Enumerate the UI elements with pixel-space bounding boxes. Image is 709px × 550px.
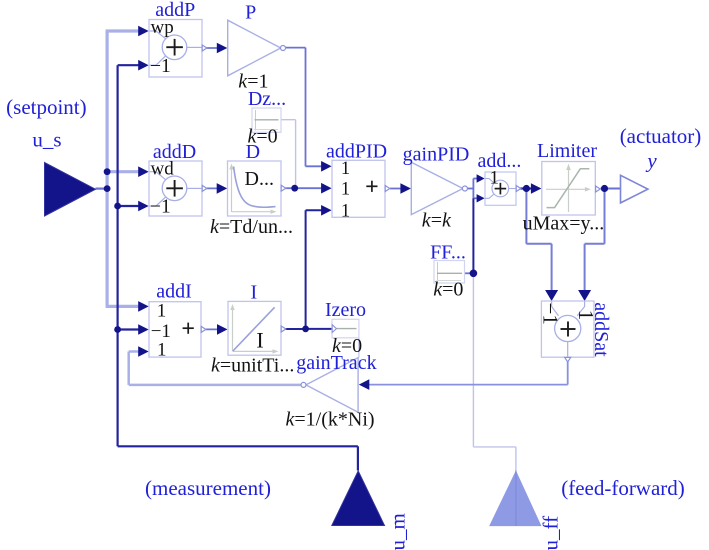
constant FFzero (434, 261, 465, 284)
arrow into addD.u2 (138, 201, 149, 212)
arrow into addPID.u2 (321, 183, 332, 194)
arrow into addI.u1 (138, 301, 149, 312)
wire u_s stub from connector to node (96, 188, 108, 190)
wire u_m to addP.u2 (118, 64, 140, 66)
arrow into addI.u2 (138, 324, 149, 335)
wire u_m horizontal from connector (118, 445, 358, 447)
wire u_ff riser (515, 447, 517, 471)
arrow into D.u (217, 183, 228, 194)
wire tap across (526, 243, 551, 245)
svg-text:D: D (246, 141, 260, 163)
node I output (302, 326, 309, 333)
svg-text:(feed-forward): (feed-forward) (561, 476, 685, 500)
wire u_m branch to addD.u2 (118, 205, 140, 207)
svg-text:uMax=y...: uMax=y... (523, 212, 605, 234)
svg-text:gainPID: gainPID (403, 143, 470, 165)
wire I node to addPID.u3 (306, 209, 325, 211)
svg-text:FF...: FF... (430, 241, 466, 263)
node u_s/addD branch (104, 168, 111, 175)
gain P (228, 20, 281, 76)
arrow into addI.u3 (138, 346, 149, 357)
wire gainPID fork vertical (472, 179, 474, 199)
limiter Limiter (542, 162, 596, 216)
arrow into addSat.u2 (578, 290, 591, 301)
adder addPID (332, 160, 385, 217)
svg-text:addSat: addSat (590, 302, 612, 357)
svg-text:(setpoint): (setpoint) (6, 95, 86, 119)
svg-text:D...: D... (245, 168, 274, 190)
svg-text:k=Td/un...: k=Td/un... (210, 216, 293, 238)
gain gainTrack (306, 358, 358, 413)
svg-text:Dz...: Dz... (248, 88, 286, 110)
svg-text:k=0: k=0 (433, 279, 463, 301)
wire output tap down to addSat.u2 (584, 244, 586, 292)
wire addI.y to I.u (201, 328, 221, 330)
gain gainPID (411, 162, 463, 214)
svg-text:(measurement): (measurement) (145, 476, 271, 500)
wire gainPID.y right (466, 188, 473, 190)
output connector y (621, 175, 648, 203)
svg-text:I: I (250, 281, 257, 303)
arrow into addSat.u1 (545, 290, 558, 301)
wire u_ff horizontal (473, 446, 516, 448)
wire Dzero.y down to D node (295, 120, 297, 189)
wire addD.y to D.u (202, 187, 221, 189)
svg-text:addD: addD (153, 141, 196, 163)
input connector u_ff (489, 470, 541, 526)
svg-text:k=1/(k*Ni): k=1/(k*Ni) (286, 409, 375, 431)
wire D.y to node (283, 187, 295, 189)
svg-text:1: 1 (157, 339, 167, 360)
wire u_m branch to addI.u2 (118, 328, 140, 330)
svg-text:add...: add... (478, 150, 522, 172)
svg-text:k=k: k=k (422, 209, 452, 231)
wire Izero edge (358, 338, 360, 358)
wire tap down to addSat.u1 (551, 244, 553, 292)
wire u_m vertical bus (116, 65, 118, 446)
arrow into addFF.u1 (477, 174, 485, 182)
wire addPID.y to gainPID.u (390, 188, 404, 190)
arrow into gainPID.u (400, 183, 411, 194)
svg-text:y: y (645, 149, 657, 173)
wire P.y down (305, 48, 307, 167)
arrow into addPID.u3 (321, 205, 332, 216)
wire Limiter input tap down (525, 189, 527, 244)
arrow into addP.u2 (138, 60, 149, 71)
wire to addFF.u2 (473, 197, 478, 199)
arrow into Limiter.u (531, 183, 542, 194)
wire I node to Izero (306, 328, 332, 330)
wire FFzero node riser (472, 198, 474, 273)
wire u_s branch to addD.u1 (107, 170, 139, 173)
node feed-forward (470, 270, 478, 278)
svg-text:u_ff: u_ff (539, 516, 563, 550)
adder addFF (485, 172, 516, 205)
wire D node to addPID.u2 (295, 187, 325, 189)
svg-text:addP: addP (155, 0, 195, 21)
wire addSat.y to gainTrack.u (369, 384, 568, 386)
adder addP (149, 20, 202, 78)
arrow into I.u (217, 324, 228, 335)
wire P.y to addPID.u1 (306, 165, 326, 167)
svg-text:addPID: addPID (326, 141, 387, 163)
svg-text:1: 1 (157, 300, 167, 321)
svg-text:1: 1 (341, 180, 350, 200)
wire I.y to node (284, 328, 306, 330)
adder addI (149, 302, 201, 357)
wire u_s to addP.u1 (106, 29, 140, 32)
svg-text:P: P (245, 2, 256, 24)
svg-text:−1: −1 (150, 56, 171, 77)
wire output tap across (585, 243, 605, 245)
input connector u_m (332, 471, 385, 526)
wire gainTrack return riser (127, 352, 130, 385)
constant Dzero (252, 108, 281, 132)
wire Limiter output tap down (604, 189, 606, 244)
svg-text:Limiter: Limiter (537, 140, 597, 162)
svg-text:1: 1 (341, 201, 350, 221)
wire Dzero.y right (281, 119, 296, 121)
svg-text:gainTrack: gainTrack (296, 352, 376, 374)
wire u_ff vertical to node (472, 273, 474, 447)
node u_s entry (104, 185, 111, 192)
wire u_s to addI.u1 (106, 305, 140, 308)
constant Izero (332, 319, 359, 338)
wire to addFF.u1 (473, 178, 478, 180)
wire addSat.y down (567, 362, 569, 385)
adder addD (149, 161, 202, 216)
arrow into addP.u1 (138, 26, 149, 37)
svg-text:−1: −1 (539, 303, 563, 325)
arrow into gainTrack.u (359, 379, 370, 390)
derivative D (228, 161, 282, 216)
svg-text:u_m: u_m (386, 513, 410, 550)
node u_m/addI branch (114, 326, 121, 333)
wire gainTrack.y left (129, 384, 302, 387)
integrator I (228, 301, 281, 355)
wire P.y right (285, 47, 306, 49)
wire I node up (305, 210, 307, 329)
svg-text:addI: addI (156, 280, 192, 302)
wire gainTrack to addI.u3 (129, 350, 140, 353)
node D output (291, 185, 298, 192)
wire u_s vertical bus (105, 31, 108, 307)
wire addP.y to P.u (202, 47, 221, 49)
svg-text:u_s: u_s (32, 128, 61, 152)
svg-text:(actuator): (actuator) (620, 124, 702, 148)
adder addSat (541, 301, 594, 357)
arrow into addPID.u1 (321, 161, 332, 172)
svg-text:I: I (256, 327, 263, 352)
arrow into addFF.u2 (477, 194, 485, 202)
svg-text:−1: −1 (150, 197, 171, 218)
node u_m/addD branch (114, 203, 121, 210)
svg-text:k=unitTi...: k=unitTi... (211, 355, 294, 377)
wire addFF.y to Limiter.u (520, 187, 534, 189)
node limiter output (601, 185, 608, 192)
wire u_m riser to connector (357, 446, 359, 470)
input connector u_s (45, 163, 96, 217)
wire Limiter.y to node (601, 188, 621, 190)
arrow into addD.u1 (138, 166, 149, 177)
svg-text:Izero: Izero (325, 299, 366, 321)
arrow into P.u (217, 43, 228, 54)
node limiter input (523, 185, 530, 192)
wire FFzero.y to node (465, 272, 474, 274)
